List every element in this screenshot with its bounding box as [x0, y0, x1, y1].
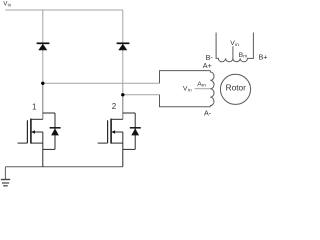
svg-text:B+: B+: [259, 52, 268, 61]
svg-text:in: in: [188, 88, 192, 94]
svg-text:in: in: [235, 42, 239, 48]
svg-text:A-: A-: [204, 108, 212, 117]
svg-text:Rotor: Rotor: [226, 83, 247, 93]
svg-text:2: 2: [112, 102, 117, 111]
svg-text:B-: B-: [206, 53, 214, 62]
svg-text:A+: A+: [203, 61, 212, 70]
svg-text:in: in: [8, 3, 12, 8]
svg-text:1: 1: [32, 102, 37, 111]
svg-text:m: m: [243, 54, 247, 59]
svg-text:m: m: [202, 84, 206, 89]
